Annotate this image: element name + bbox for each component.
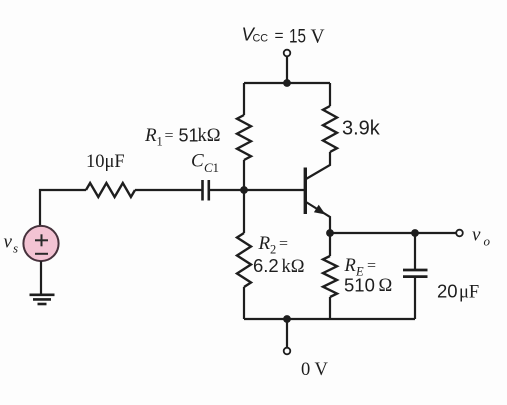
svg-text:=: = — [275, 28, 284, 45]
capacitor 20uF plates — [403, 270, 428, 277]
wire Vcc terminal vertical — [286, 56, 288, 83]
svg-text:R: R — [258, 233, 271, 254]
svg-text:6.2: 6.2 — [253, 255, 279, 276]
terminal 0V open circle — [284, 348, 291, 355]
wire bottom rail — [244, 318, 415, 320]
wire input top horizontal — [40, 190, 86, 226]
source vs minus sign — [35, 253, 48, 255]
wire RE bottom vertical — [329, 297, 331, 319]
svg-text:510: 510 — [344, 275, 375, 296]
svg-text:s: s — [13, 241, 18, 256]
svg-text:=: = — [165, 128, 174, 145]
wire top rail — [244, 82, 330, 84]
svg-text:3.9k: 3.9k — [342, 118, 381, 140]
terminal vo open circle — [456, 230, 463, 237]
svg-text:o: o — [484, 234, 491, 249]
svg-text:=: = — [279, 236, 288, 253]
resistor 10uF-labeled source resistor zigzag — [86, 183, 135, 197]
transistor Q1 emitter arrowhead — [314, 205, 326, 215]
wire 20uF top vertical — [414, 233, 416, 270]
svg-text:kΩ: kΩ — [198, 126, 221, 146]
wire 20uF bottom vertical — [414, 277, 416, 319]
resistor R1 zigzag — [237, 115, 251, 160]
wire 3.9k top vertical — [329, 83, 331, 106]
wire R2 bottom vertical — [243, 287, 245, 319]
label C_C1 — [191, 151, 219, 176]
label RE = 510 Ohm — [344, 256, 393, 296]
capacitor C_C1 plates — [203, 180, 209, 201]
label vs — [4, 232, 19, 256]
svg-text:R: R — [344, 256, 356, 276]
wire R2 top vertical — [243, 190, 245, 233]
transistor Q1 emitter lead with arrow — [306, 202, 330, 233]
svg-text:V: V — [311, 27, 325, 48]
ground symbol — [30, 295, 55, 304]
wire collector lead — [306, 152, 330, 179]
svg-text:=: = — [367, 258, 376, 275]
node dot ground junction — [283, 315, 291, 323]
resistor 3.9k zigzag — [323, 106, 337, 152]
terminal Vcc open circle — [284, 50, 291, 57]
transistor Q1 base bar — [304, 168, 307, 215]
svg-text:μF: μF — [459, 283, 479, 303]
source vs circle — [23, 226, 58, 261]
node dot emitter junction — [326, 229, 334, 237]
svg-text:0 V: 0 V — [301, 360, 329, 380]
wire 0V terminal vertical — [286, 319, 288, 348]
wire output horizontal — [330, 232, 456, 234]
label 20uF — [437, 281, 479, 303]
svg-text:v: v — [4, 232, 13, 253]
label R2 = 6.2kOhm — [253, 233, 305, 277]
wire resistor to capacitor CC1 — [135, 189, 202, 191]
wire base node horizontal — [209, 189, 304, 191]
svg-text:1: 1 — [213, 160, 220, 175]
svg-text:20: 20 — [437, 281, 458, 302]
svg-text:Ω: Ω — [379, 276, 393, 296]
label vo — [472, 225, 491, 249]
svg-text:v: v — [472, 225, 481, 246]
wire RE top vertical — [329, 233, 331, 256]
svg-text:CC: CC — [253, 33, 269, 45]
svg-text:R: R — [144, 125, 157, 146]
label Vcc = 15V — [242, 24, 325, 48]
wire source to ground — [40, 261, 42, 294]
wire R1 bottom vertical — [243, 160, 245, 190]
node dot Vcc junction — [283, 79, 291, 87]
label R1 = 51kOhm — [144, 125, 221, 149]
svg-text:1: 1 — [157, 135, 163, 149]
resistor RE zigzag — [323, 256, 337, 297]
source vs plus sign — [35, 234, 48, 246]
node dot base junction — [240, 186, 248, 194]
svg-text:kΩ: kΩ — [282, 257, 305, 277]
wire R1 top vertical — [243, 83, 245, 115]
resistor R2 zigzag — [237, 233, 251, 287]
svg-text:C: C — [191, 151, 204, 172]
svg-text:15: 15 — [289, 27, 306, 48]
node dot output capacitor junction — [411, 229, 419, 237]
svg-text:10μF: 10μF — [86, 152, 125, 172]
svg-text:51: 51 — [179, 126, 199, 146]
